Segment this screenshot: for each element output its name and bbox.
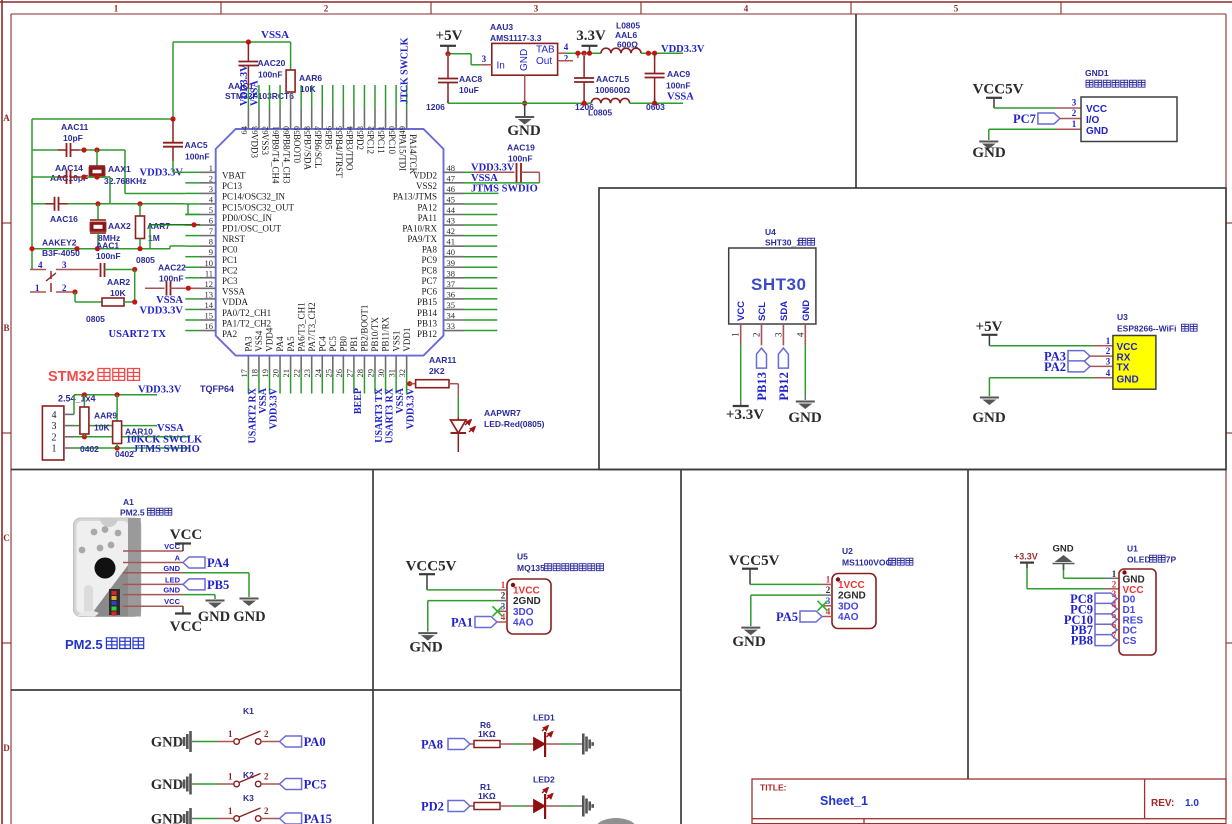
key K3: [151, 793, 332, 824]
svg-text:18: 18: [249, 369, 259, 378]
svg-text:A: A: [3, 113, 10, 123]
svg-text:VSSA: VSSA: [395, 387, 406, 413]
svg-text:4: 4: [795, 332, 805, 337]
port flag PA3: [1044, 350, 1113, 364]
wire vdd to pin4: [74, 392, 157, 414]
svg-text:VSS2: VSS2: [416, 181, 437, 191]
svg-text:2: 2: [52, 432, 57, 443]
svg-text:USART3 TX: USART3 TX: [374, 387, 385, 443]
svg-text:VCC: VCC: [164, 597, 180, 606]
svg-text:40: 40: [447, 247, 456, 257]
wire gnd2 pm25: [183, 595, 215, 599]
svg-text:PA14/TCK: PA14/TCK: [408, 134, 418, 175]
svg-text:0402: 0402: [80, 444, 99, 454]
wire gnd1 pm25: [183, 573, 249, 597]
svg-text:4AO: 4AO: [513, 618, 534, 629]
mcu left pins 1-16: [185, 163, 294, 339]
ground oled top: [1052, 544, 1119, 579]
svg-text:4: 4: [1112, 599, 1117, 609]
svg-text:L0805: L0805: [588, 108, 612, 118]
svg-text:24: 24: [313, 368, 323, 377]
svg-text:10uF: 10uF: [459, 85, 479, 95]
svg-text:1: 1: [501, 580, 506, 590]
svg-text:TITLE:: TITLE:: [760, 783, 787, 793]
svg-text:2: 2: [264, 729, 269, 739]
svg-text:PA0: PA0: [304, 735, 326, 749]
svg-text:GND: GND: [788, 410, 822, 426]
svg-text:VSSA: VSSA: [261, 29, 289, 41]
svg-text:19: 19: [260, 369, 270, 378]
svg-text:36: 36: [447, 289, 456, 299]
svg-text:PA13/JTMS: PA13/JTMS: [393, 192, 437, 202]
svg-text:GND: GND: [1086, 126, 1108, 137]
svg-text:USART3 RX: USART3 RX: [385, 387, 396, 443]
svg-text:2: 2: [1072, 108, 1077, 118]
svg-text:VDD3.3V: VDD3.3V: [406, 387, 417, 429]
svg-text:64: 64: [239, 125, 249, 134]
svg-text:38: 38: [447, 268, 456, 278]
svg-text:PC12: PC12: [366, 134, 376, 154]
svg-text:41: 41: [447, 237, 456, 247]
svg-text:PD2: PD2: [421, 800, 444, 814]
svg-text:VCC: VCC: [736, 301, 747, 321]
svg-text:JTMS SWDIO: JTMS SWDIO: [133, 444, 200, 455]
svg-text:PA15: PA15: [304, 812, 332, 824]
svg-text:GND: GND: [151, 812, 183, 824]
svg-text:3: 3: [1072, 98, 1077, 108]
power +5V: [436, 28, 463, 54]
svg-text:PB8/T4_CH3: PB8/T4_CH3: [281, 134, 291, 184]
svg-text:51: 51: [376, 126, 386, 135]
svg-text:PA3: PA3: [244, 336, 254, 352]
svg-text:1VCC: 1VCC: [513, 585, 540, 596]
svg-text:A1: A1: [123, 497, 134, 507]
svg-text:61: 61: [271, 126, 281, 135]
svg-text:12: 12: [205, 279, 214, 289]
svg-text:VSSA: VSSA: [156, 295, 183, 306]
svg-text:56: 56: [323, 126, 333, 135]
svg-text:Sheet_1: Sheet_1: [820, 794, 868, 808]
inductor AAL6 600: [601, 21, 683, 56]
wire swdio pin1: [74, 445, 190, 450]
svg-text:PA7/T3_CH2: PA7/T3_CH2: [307, 302, 317, 351]
svg-text:PA4: PA4: [207, 556, 230, 570]
svg-text:1206: 1206: [426, 102, 445, 112]
svg-text:PC9: PC9: [421, 255, 437, 265]
svg-text:AAC20: AAC20: [258, 58, 286, 68]
svg-text:VDD3.3V: VDD3.3V: [269, 387, 280, 429]
svg-text:LED2: LED2: [533, 775, 555, 785]
ground U2: [732, 628, 766, 651]
svg-text:22: 22: [292, 369, 302, 378]
svg-text:PA9/TX: PA9/TX: [407, 234, 437, 244]
svg-text:PB15: PB15: [417, 297, 438, 307]
svg-text:PA5: PA5: [776, 610, 798, 624]
svg-text:1: 1: [731, 333, 741, 338]
svg-text:4: 4: [564, 42, 569, 52]
led circuit LED2: [421, 775, 593, 820]
svg-text:PC4: PC4: [317, 336, 327, 352]
svg-text:PC8: PC8: [421, 266, 437, 276]
svg-text:PB13: PB13: [755, 372, 769, 400]
wire vssa pin3: [74, 425, 157, 427]
svg-text:4: 4: [744, 4, 749, 14]
no-connect pin3 U2: [818, 601, 828, 611]
capacitor AAC22 100nF: [145, 263, 200, 296]
svg-text:2: 2: [564, 54, 569, 64]
svg-text:VBAT: VBAT: [222, 171, 246, 181]
svg-text:29: 29: [366, 369, 376, 378]
capacitor AAC16: [32, 177, 143, 224]
svg-text:PB10/TX: PB10/TX: [370, 317, 380, 352]
svg-text:3: 3: [52, 421, 57, 432]
svg-text:4: 4: [826, 607, 831, 617]
regulator AAU3 AMS1117-3.3: [481, 22, 578, 103]
capacitor AAC19 100nF: [474, 143, 540, 183]
mcu U AAIC1 STM32F103RCT6 body: [200, 81, 444, 394]
svg-text:I/O: I/O: [1086, 115, 1100, 126]
port flag PA1: [451, 616, 497, 630]
port flag PB13: [755, 348, 769, 400]
svg-text:PB3/TDO: PB3/TDO: [345, 134, 355, 171]
svg-text:VCC5V: VCC5V: [973, 82, 1024, 98]
svg-text:SHT30_1: SHT30_1: [765, 238, 801, 248]
svg-text:9: 9: [209, 247, 213, 257]
svg-text:AAC22: AAC22: [158, 263, 186, 273]
svg-text:NRST: NRST: [222, 234, 246, 244]
svg-text:PA8: PA8: [421, 738, 443, 752]
mcu top pins 64-49: [239, 85, 418, 184]
port flag PA5: [776, 610, 822, 624]
svg-text:16: 16: [205, 321, 214, 331]
svg-text:REV:: REV:: [1151, 798, 1174, 809]
svg-text:10: 10: [205, 258, 214, 268]
capacitor AAC14 10pF: [32, 163, 110, 184]
svg-text:PC14/OSC32_IN: PC14/OSC32_IN: [222, 192, 286, 202]
svg-text:U2: U2: [842, 546, 853, 556]
port flag PB8: [1071, 634, 1119, 648]
no-connect pin3 U5: [493, 606, 503, 616]
svg-text:VCC5V: VCC5V: [406, 559, 457, 575]
svg-text:PM2.5: PM2.5: [120, 508, 145, 518]
svg-text:58: 58: [302, 126, 312, 135]
svg-text:AAR6: AAR6: [299, 73, 322, 83]
svg-text:BEEP: BEEP: [353, 388, 364, 414]
svg-text:MS1100VOC: MS1100VOC: [842, 558, 892, 568]
power VCC top: [170, 527, 203, 551]
svg-text:JTMS SWDIO: JTMS SWDIO: [471, 183, 538, 194]
svg-text:PA6/T3_CH1: PA6/T3_CH1: [296, 302, 306, 351]
wire to pin3: [125, 150, 185, 194]
svg-text:47: 47: [447, 173, 456, 183]
svg-text:ESP8266--WiFi: ESP8266--WiFi: [1117, 324, 1176, 334]
port flag PC10: [1064, 613, 1119, 627]
svg-text:U3: U3: [1117, 312, 1128, 322]
svg-text:VDD3.3V: VDD3.3V: [140, 305, 184, 316]
ground pm25 a: [198, 601, 230, 626]
svg-text:1KΩ: 1KΩ: [478, 791, 496, 801]
svg-text:AAPWR7: AAPWR7: [484, 408, 521, 418]
power +3.3V sht30: [726, 406, 764, 423]
wire nrst rail: [29, 246, 185, 251]
svg-text:VSSA: VSSA: [222, 287, 246, 297]
key K2: [151, 770, 327, 795]
svg-text:20: 20: [271, 369, 281, 378]
svg-text:VDD3.3V: VDD3.3V: [138, 385, 182, 396]
resistor AAR10 10K: [113, 395, 154, 459]
power VCC bottom: [170, 606, 203, 635]
svg-text:PB8: PB8: [1071, 634, 1093, 648]
svg-text:Out: Out: [536, 56, 552, 67]
svg-text:GND: GND: [1052, 544, 1073, 555]
wire swclk pin2: [74, 434, 190, 439]
svg-text:PA12: PA12: [417, 202, 437, 212]
svg-text:1: 1: [52, 444, 57, 455]
svg-text:7: 7: [1112, 631, 1117, 641]
svg-text:AAC1: AAC1: [96, 241, 119, 251]
svg-text:0805: 0805: [136, 255, 155, 265]
wire 3.3V rail: [566, 51, 601, 56]
svg-text:10pF: 10pF: [63, 133, 83, 143]
svg-text:5: 5: [1112, 610, 1117, 620]
svg-text:50: 50: [387, 126, 397, 135]
crystal AAX1 32.768KHz: [89, 150, 147, 186]
svg-text:JTCK SWCLK: JTCK SWCLK: [400, 37, 411, 104]
svg-text:VSS1: VSS1: [391, 331, 401, 352]
svg-text:PA10/RX: PA10/RX: [402, 223, 437, 233]
svg-text:28: 28: [355, 369, 365, 378]
svg-text:3: 3: [1106, 356, 1111, 366]
svg-text:MQ135: MQ135: [517, 563, 545, 573]
svg-text:2K2: 2K2: [429, 366, 445, 376]
capacitor AAC5 100nF: [163, 119, 210, 172]
svg-text:VDD3: VDD3: [250, 134, 260, 158]
svg-text:PA0/T2_CH1: PA0/T2_CH1: [222, 308, 271, 318]
svg-text:AAC9: AAC9: [667, 69, 690, 79]
svg-text:PA5: PA5: [286, 336, 296, 352]
svg-text:48: 48: [447, 163, 456, 173]
svg-text:100nF: 100nF: [96, 251, 121, 261]
svg-text:26: 26: [334, 369, 344, 378]
svg-text:0603: 0603: [646, 102, 665, 112]
module U2: [822, 546, 913, 629]
svg-text:USART2 RX: USART2 RX: [247, 387, 258, 443]
svg-text:1: 1: [1112, 569, 1117, 579]
power VCC5V buzzer: [973, 82, 1024, 109]
svg-text:PA2: PA2: [1044, 360, 1066, 374]
sensor pm2.5 pin wires: [123, 542, 183, 606]
svg-text:PD1/OSC_OUT: PD1/OSC_OUT: [222, 223, 282, 233]
svg-text:52: 52: [366, 126, 376, 135]
svg-text:U5: U5: [517, 552, 528, 562]
svg-text:30: 30: [376, 369, 386, 378]
svg-text:SCL: SCL: [757, 302, 768, 321]
svg-text:2: 2: [1106, 346, 1111, 356]
svg-text:7P: 7P: [1166, 555, 1177, 565]
svg-text:USART2 TX: USART2 TX: [109, 329, 167, 340]
svg-text:PB2/BOOT1: PB2/BOOT1: [360, 305, 370, 352]
svg-text:53: 53: [355, 126, 365, 135]
module GND1 active buzzer: [1072, 68, 1177, 142]
svg-text:PB12: PB12: [417, 329, 437, 339]
svg-text:GND: GND: [1117, 374, 1139, 385]
wire sht30 gnd: [804, 345, 806, 400]
svg-text:59: 59: [292, 126, 302, 135]
capacitor AAC8 10uF: [426, 54, 482, 112]
key K1: [151, 706, 326, 752]
svg-text:AAKEY2: AAKEY2: [42, 238, 77, 248]
svg-text:3DO: 3DO: [513, 607, 534, 618]
svg-text:27: 27: [344, 369, 354, 378]
svg-text:1: 1: [1072, 119, 1077, 129]
svg-text:1: 1: [826, 574, 831, 584]
svg-text:+3.3V: +3.3V: [726, 407, 764, 423]
svg-text:PA11: PA11: [418, 213, 437, 223]
svg-text:GND: GND: [507, 123, 541, 139]
inductor L0805 lower: [588, 98, 630, 117]
key AAKEY2 B3F-4050: [30, 238, 99, 294]
svg-text:AAR11: AAR11: [429, 355, 457, 365]
svg-text:VSS4: VSS4: [254, 330, 264, 352]
ground U5: [409, 633, 443, 656]
wire esp vcc: [989, 345, 1113, 347]
svg-text:PD0/OSC_IN: PD0/OSC_IN: [222, 213, 273, 223]
svg-text:PC2: PC2: [222, 266, 238, 276]
svg-text:SDA: SDA: [779, 301, 790, 321]
svg-text:8: 8: [209, 237, 213, 247]
svg-text:GND: GND: [972, 410, 1006, 426]
svg-text:In: In: [497, 61, 505, 72]
power VCC5V U2: [729, 553, 822, 584]
capacitor AAC7 100nF: [573, 53, 630, 112]
port flag PC8: [1070, 592, 1119, 606]
svg-text:PC3: PC3: [222, 276, 238, 286]
module U4 SHT30: [729, 227, 816, 345]
svg-text:PC5: PC5: [328, 336, 338, 352]
svg-text:AAC7L5: AAC7L5: [596, 74, 629, 84]
svg-text:2GND: 2GND: [513, 596, 541, 607]
svg-text:4: 4: [52, 410, 57, 421]
svg-text:CS: CS: [1123, 636, 1137, 647]
svg-text:1VCC: 1VCC: [838, 580, 865, 591]
svg-text:B3F-4050: B3F-4050: [42, 248, 80, 258]
svg-text:5: 5: [954, 4, 959, 14]
capacitor AAC20 100nF: [238, 39, 285, 108]
svg-text:PA15/TDI: PA15/TDI: [397, 134, 407, 171]
svg-text:PC6: PC6: [421, 287, 437, 297]
svg-text:2: 2: [264, 806, 269, 816]
svg-text:TQFP64: TQFP64: [200, 384, 234, 394]
svg-text:PB9/T4_CH4: PB9/T4_CH4: [271, 134, 281, 184]
svg-text:GND: GND: [151, 777, 183, 793]
svg-text:BOOT0: BOOT0: [292, 134, 302, 163]
power +5V esp: [976, 319, 1003, 346]
svg-text:AAU3: AAU3: [490, 22, 513, 32]
ground pm25 b: [233, 599, 265, 626]
svg-text:VSSA: VSSA: [157, 423, 184, 434]
svg-text:PB5: PB5: [207, 578, 229, 592]
svg-text:60: 60: [281, 126, 291, 135]
port flag PA4: [183, 557, 205, 568]
svg-text:3: 3: [62, 260, 67, 270]
svg-text:PA4: PA4: [275, 336, 285, 352]
svg-text:AAX1: AAX1: [108, 164, 131, 174]
svg-text:1.0: 1.0: [1185, 798, 1199, 809]
module U1 OLED: [1119, 544, 1176, 656]
svg-text:U1: U1: [1127, 544, 1138, 554]
svg-text:PC1: PC1: [222, 255, 238, 265]
svg-text:B: B: [3, 323, 9, 333]
wire gnd U5: [428, 601, 497, 632]
svg-text:6: 6: [209, 216, 213, 226]
port flag PB12: [777, 348, 791, 400]
svg-text:VDD4: VDD4: [265, 327, 275, 351]
svg-text:54: 54: [344, 125, 354, 134]
svg-text:0805: 0805: [86, 314, 105, 324]
svg-text:2: 2: [264, 772, 269, 782]
module region box: [599, 188, 1226, 470]
svg-text:3: 3: [773, 332, 783, 337]
svg-text:K3: K3: [243, 793, 254, 803]
svg-text:VDD3.3V: VDD3.3V: [661, 44, 705, 55]
svg-text:13: 13: [205, 289, 214, 299]
svg-text:1KΩ: 1KΩ: [478, 729, 496, 739]
svg-text:PM2.5: PM2.5: [65, 637, 103, 652]
wire vssa bottom rail: [448, 101, 683, 106]
svg-text:AAC14: AAC14: [55, 163, 83, 173]
oled pin numbers: [1112, 569, 1117, 641]
port flag PB7: [1071, 623, 1119, 637]
svg-text:PB1: PB1: [349, 336, 359, 352]
svg-text:LED: LED: [165, 575, 181, 584]
svg-text:43: 43: [447, 216, 456, 226]
svg-text:63: 63: [249, 126, 259, 135]
svg-text:46: 46: [447, 184, 456, 194]
port flag PA2: [1044, 360, 1113, 374]
svg-text:10K: 10K: [110, 288, 126, 298]
svg-text:VSSA: VSSA: [667, 92, 694, 103]
svg-text:PB11/RX: PB11/RX: [381, 316, 391, 351]
resistor AAR11 2K2: [407, 355, 459, 418]
svg-text:1: 1: [228, 729, 233, 739]
svg-text:14: 14: [205, 300, 214, 310]
svg-text:VDDA: VDDA: [222, 297, 248, 307]
svg-text:LED-Red(0805): LED-Red(0805): [484, 419, 545, 429]
svg-text:K1: K1: [243, 706, 254, 716]
power VCC5V U5: [406, 559, 497, 590]
wire vdd rail left: [32, 116, 176, 269]
wire sht30 vcc: [740, 345, 742, 406]
sensor A1 PM2.5 image: [74, 497, 172, 617]
svg-text:34: 34: [447, 311, 456, 321]
svg-text:25: 25: [323, 369, 333, 378]
svg-text:GND: GND: [519, 49, 530, 71]
svg-text:C: C: [3, 533, 10, 543]
svg-text:62: 62: [260, 126, 270, 135]
title block: [752, 779, 1226, 824]
svg-text:2GND: 2GND: [838, 591, 866, 602]
svg-text:100nF: 100nF: [508, 154, 533, 164]
wire gnd U2: [751, 595, 822, 626]
svg-text:PC0: PC0: [222, 244, 238, 254]
svg-text:PA1: PA1: [451, 616, 473, 630]
svg-text:GND: GND: [233, 609, 265, 625]
svg-text:3: 3: [1112, 589, 1117, 599]
svg-text:VCC: VCC: [170, 527, 203, 543]
svg-text:1: 1: [1106, 336, 1111, 346]
svg-text:39: 39: [447, 258, 456, 268]
svg-text:PC5: PC5: [304, 778, 327, 792]
